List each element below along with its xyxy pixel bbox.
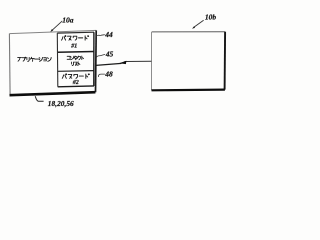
svg-text:10b: 10b xyxy=(205,12,217,21)
svg-text:48: 48 xyxy=(104,70,113,79)
svg-text:#1: #1 xyxy=(70,44,77,50)
svg-text:10a: 10a xyxy=(62,16,74,25)
svg-text:18,20,56: 18,20,56 xyxy=(48,99,74,108)
svg-text:45: 45 xyxy=(105,50,114,59)
svg-text:44: 44 xyxy=(104,30,113,39)
svg-text:#2: #2 xyxy=(72,80,79,86)
